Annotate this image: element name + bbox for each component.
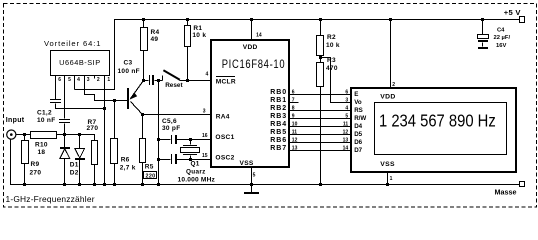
svg-text:12: 12 <box>292 137 298 143</box>
svg-text:C4: C4 <box>497 27 505 33</box>
svg-text:D2: D2 <box>70 170 79 177</box>
svg-text:R9: R9 <box>31 161 40 168</box>
svg-text:4: 4 <box>345 105 348 111</box>
svg-text:R2: R2 <box>327 34 336 41</box>
wire reset switch to MCLR <box>180 80 212 82</box>
svg-text:Vorteiler 64:1: Vorteiler 64:1 <box>44 39 101 48</box>
LCD module display <box>351 88 516 172</box>
svg-text:49: 49 <box>151 36 159 43</box>
svg-text:6: 6 <box>58 77 61 83</box>
svg-text:4: 4 <box>206 72 209 78</box>
node R1/MCLR junction <box>186 79 189 82</box>
svg-text:1: 1 <box>390 176 393 182</box>
svg-text:OSC2: OSC2 <box>215 154 234 161</box>
resistor R9 <box>24 135 26 141</box>
LCD pin 2 VDD lead <box>390 20 392 89</box>
svg-text:15: 15 <box>202 153 208 159</box>
svg-text:6: 6 <box>345 89 348 95</box>
svg-text:Reset: Reset <box>165 82 183 89</box>
svg-text:14: 14 <box>256 32 262 38</box>
svg-text:R/W: R/W <box>354 115 366 122</box>
svg-text:9: 9 <box>292 113 295 119</box>
svg-text:10 k: 10 k <box>192 32 206 39</box>
svg-text:C5,6: C5,6 <box>162 118 177 125</box>
ground symbol below C4 <box>478 47 488 49</box>
junction dots on +5V rail <box>142 18 145 21</box>
svg-text:RB1: RB1 <box>270 97 287 104</box>
node collector/RA4/R5 junction <box>141 113 144 116</box>
svg-text:Masse: Masse <box>495 187 517 196</box>
wire RB3 to LCD <box>289 118 351 120</box>
svg-text:R5: R5 <box>145 163 154 170</box>
diode D1 <box>64 135 66 148</box>
svg-text:R3: R3 <box>327 57 336 64</box>
LCD readout window <box>375 103 507 155</box>
node C1 wire / pin1 line <box>103 107 106 110</box>
ground line from reset switch down to rail <box>158 81 160 185</box>
svg-text:PIC16F84-10: PIC16F84-10 <box>222 58 286 71</box>
svg-text:6: 6 <box>292 89 295 95</box>
wire RB1 stub <box>289 102 299 104</box>
node C3/reset/ground-line junction <box>157 79 160 82</box>
svg-text:C1,2: C1,2 <box>37 110 52 117</box>
svg-text:220: 220 <box>146 173 156 179</box>
node C5/ground-line <box>157 138 160 141</box>
svg-text:1: 1 <box>107 77 110 83</box>
svg-text:7: 7 <box>292 97 295 103</box>
wire U664B pin 3 to transistor base <box>85 76 128 101</box>
wire U664B pin 6 to capacitor C1 <box>55 76 57 100</box>
svg-text:8: 8 <box>292 105 295 111</box>
capacitor C6 <box>171 154 172 164</box>
svg-text:12: 12 <box>343 129 349 135</box>
wire RB6 to LCD <box>289 142 351 144</box>
R5 value label box 220 <box>144 172 157 179</box>
diode D2 <box>79 135 81 149</box>
capacitor C2 (input coupling) <box>59 119 70 120</box>
svg-text:30 pF: 30 pF <box>162 125 180 132</box>
wire input to R10 <box>16 134 31 136</box>
svg-text:R1: R1 <box>193 25 202 32</box>
svg-text:VSS: VSS <box>240 160 254 167</box>
svg-text:RA4: RA4 <box>216 113 230 120</box>
wire collector to PIC RA4 <box>143 114 212 116</box>
wire U664B pin 1 to ground rail <box>104 76 106 185</box>
svg-text:11: 11 <box>292 129 298 135</box>
resistor R4 <box>143 20 145 28</box>
pin 5 VSS lead <box>251 168 253 193</box>
svg-text:R4: R4 <box>151 29 160 36</box>
wire RB5 to LCD <box>289 134 351 136</box>
junction dots on ground rail <box>23 183 26 186</box>
wire U664B pin 4 to +5V drop <box>74 76 76 90</box>
svg-text:270: 270 <box>30 170 42 177</box>
svg-text:10 nF: 10 nF <box>37 117 55 124</box>
node crystal top <box>189 138 192 141</box>
svg-text:18: 18 <box>38 149 46 156</box>
wire OSC2 row <box>159 159 171 161</box>
svg-text:5: 5 <box>253 172 256 178</box>
svg-text:16V: 16V <box>496 43 506 49</box>
Masse ground rail wire <box>11 140 520 185</box>
svg-text:RB3: RB3 <box>270 113 287 120</box>
reset switch S1 <box>159 80 163 82</box>
svg-text:2,7 k: 2,7 k <box>120 164 136 171</box>
transistor Q2 (PNP) <box>127 88 129 109</box>
svg-text:VSS: VSS <box>380 161 395 168</box>
svg-text:Input: Input <box>6 117 25 124</box>
svg-text:RB5: RB5 <box>270 129 287 136</box>
microcontroller U1 PIC16F84-10 <box>211 40 289 167</box>
svg-text:5: 5 <box>68 77 71 83</box>
svg-text:OSC1: OSC1 <box>215 134 234 141</box>
crystal Q1 10 MHz <box>190 140 192 145</box>
pin 14 VDD lead <box>251 20 253 40</box>
svg-text:MCLR: MCLR <box>216 79 236 86</box>
svg-text:4: 4 <box>77 77 80 83</box>
svg-text:RB6: RB6 <box>270 137 287 144</box>
svg-text:E: E <box>354 91 358 98</box>
svg-text:10 k: 10 k <box>326 42 340 49</box>
resistor R7 <box>92 141 98 165</box>
+5V supply rail wire <box>75 20 520 90</box>
resistor R3 <box>317 63 324 87</box>
Masse connector terminal <box>520 182 525 187</box>
wire R2/R3 junction <box>320 56 322 63</box>
svg-text:2: 2 <box>97 77 100 83</box>
svg-text:3: 3 <box>87 77 90 83</box>
svg-text:D5: D5 <box>354 131 362 138</box>
svg-text:470: 470 <box>326 65 338 72</box>
svg-text:R6: R6 <box>121 157 130 164</box>
+5V connector terminal <box>520 17 525 23</box>
resistor R10 (horizontal) <box>31 132 57 139</box>
svg-text:U664B-SIP: U664B-SIP <box>59 58 100 67</box>
node crystal bottom <box>189 158 192 161</box>
wire contrast divider to LCD Vo <box>321 58 351 103</box>
input connector J1 <box>7 130 16 139</box>
svg-text:1 234 567 890 Hz: 1 234 567 890 Hz <box>379 112 496 131</box>
svg-text:RB2: RB2 <box>270 105 287 112</box>
svg-text:22 µF/: 22 µF/ <box>494 35 511 41</box>
wire U664B pin 5 to C2 <box>64 76 66 119</box>
resistor R1 <box>187 20 189 26</box>
wire U664B pin 2 stub <box>94 76 96 79</box>
svg-text:D1: D1 <box>70 162 79 169</box>
svg-text:D7: D7 <box>354 147 362 154</box>
ground symbol below VSS <box>244 192 259 194</box>
svg-text:270: 270 <box>87 125 99 132</box>
svg-text:1-GHz-Frequenzzähler: 1-GHz-Frequenzzähler <box>6 194 95 204</box>
resistor R5 <box>142 115 144 139</box>
svg-text:D6: D6 <box>354 139 362 146</box>
svg-text:Quarz: Quarz <box>186 168 206 175</box>
resistor R6 <box>114 101 116 139</box>
svg-text:16: 16 <box>202 133 208 139</box>
svg-text:13: 13 <box>343 137 349 143</box>
svg-text:100 nF: 100 nF <box>118 68 140 75</box>
node C1,2/D1 junction <box>63 133 66 136</box>
node input/R9 junction <box>23 133 26 136</box>
svg-text:RB0: RB0 <box>270 89 287 96</box>
wire RB4 to LCD <box>289 126 351 128</box>
svg-text:3: 3 <box>203 109 206 115</box>
svg-text:C3: C3 <box>124 59 133 66</box>
prescaler IC U664B-SIP <box>51 51 110 76</box>
capacitor C1 (pin 6 decoupling) <box>50 99 61 100</box>
svg-text:RS: RS <box>354 107 363 114</box>
capacitor C4 electrolytic <box>482 20 484 35</box>
wire OSC1 row <box>159 139 171 141</box>
svg-text:Q1: Q1 <box>191 160 200 167</box>
svg-text:10: 10 <box>292 121 298 127</box>
svg-text:10.000 MHz: 10.000 MHz <box>178 176 216 183</box>
svg-text:R10: R10 <box>35 141 48 148</box>
svg-text:+5 V: +5 V <box>504 8 522 17</box>
wire RB0 to LCD <box>289 94 351 96</box>
svg-text:VDD: VDD <box>380 94 395 101</box>
resistor R2 <box>320 20 322 36</box>
capacitor C5 <box>171 135 172 144</box>
node C6/ground-line <box>157 158 160 161</box>
svg-text:13: 13 <box>292 145 298 151</box>
node emitter/R4/C3 junction <box>142 79 145 82</box>
svg-text:Vo: Vo <box>354 99 362 106</box>
wire R10 to R7 signal line <box>57 135 95 141</box>
svg-text:D4: D4 <box>354 123 362 130</box>
wire RB2 to LCD <box>289 110 351 112</box>
svg-text:11: 11 <box>343 121 349 127</box>
LCD pin 1 VSS lead <box>387 172 389 185</box>
svg-text:14: 14 <box>343 145 349 151</box>
wire C1 to ground line <box>56 104 105 109</box>
svg-text:2: 2 <box>392 82 395 88</box>
node D2 junction <box>78 133 81 136</box>
wire RB7 to LCD <box>289 150 351 152</box>
svg-text:5: 5 <box>345 113 348 119</box>
svg-text:RB4: RB4 <box>270 121 287 128</box>
svg-text:RB7: RB7 <box>270 145 287 152</box>
svg-text:VDD: VDD <box>243 44 258 51</box>
